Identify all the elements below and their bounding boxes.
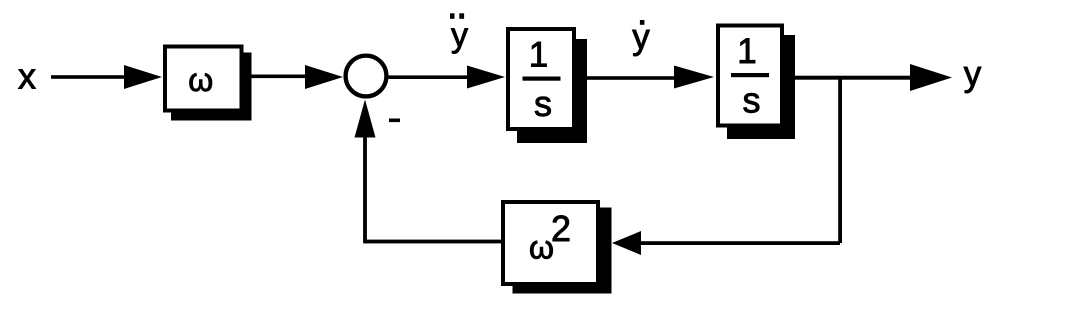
fraction bar in U1 (523, 77, 561, 81)
block W1 shadow (171, 53, 252, 121)
summing junction S1 (346, 56, 387, 97)
wire U1 to U2 (576, 76, 678, 80)
block W1 (omega) (165, 47, 242, 111)
block U3 (omega squared) (503, 202, 598, 284)
block U1 shadow (517, 39, 587, 143)
diaeresis dots over ydotdot (450, 13, 455, 18)
wire feedback left vertical (363, 135, 367, 243)
svg-text:ω: ω (188, 62, 213, 98)
svg-text:1: 1 (529, 36, 548, 75)
wire W1 to summing junction (245, 75, 309, 79)
svg-text:s: s (743, 80, 761, 121)
fraction bar in U2 (731, 73, 769, 77)
arrowhead up into summing junction (355, 100, 376, 138)
svg-text:1: 1 (737, 32, 756, 71)
block U2 (1/s integrator) (718, 26, 782, 126)
svg-text:y: y (964, 55, 982, 94)
wire summing junction to block U1 (386, 75, 471, 79)
wire input x to block W1 (51, 75, 128, 79)
wire U2 to output y (784, 76, 912, 80)
wire branch vertical from output line (838, 77, 842, 243)
arrowhead into block U3 (612, 231, 641, 255)
wire feedback left horizontal from U3 (365, 240, 501, 244)
minus sign at summing junction (389, 119, 400, 123)
svg-text:2: 2 (551, 208, 571, 249)
arrowhead into block W1 (124, 65, 162, 89)
svg-text:y: y (451, 17, 468, 55)
block U1 (1/s integrator) (508, 29, 574, 129)
arrowhead into block U1 (467, 66, 505, 89)
arrowhead into block U2 (674, 66, 714, 89)
dot over ydot (640, 20, 645, 25)
arrowhead into summing junction (305, 65, 343, 89)
block U3 shadow (513, 208, 612, 294)
arrowhead output (910, 64, 952, 91)
wire feedback right horizontal into U3 (639, 241, 840, 245)
svg-text:s: s (534, 83, 552, 124)
svg-text:x: x (18, 56, 36, 97)
block U2 shadow (727, 35, 795, 139)
